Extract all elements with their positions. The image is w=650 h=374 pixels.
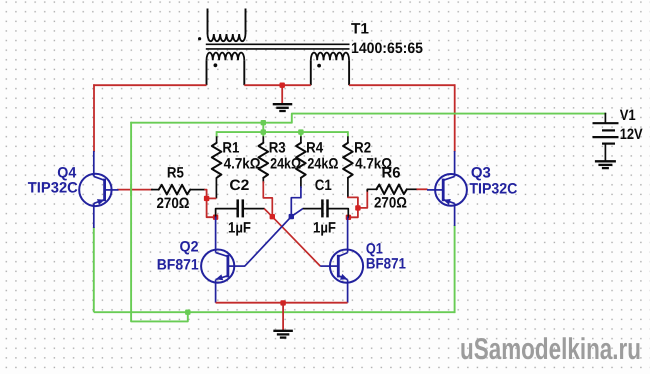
wire red cross to Q1 base bbox=[272, 217, 320, 266]
label R2 bbox=[354, 139, 371, 156]
label Q1 bbox=[366, 240, 383, 257]
label R6 value bbox=[374, 195, 407, 212]
wire red ground stub bbox=[282, 303, 284, 330]
wire green bottom rail bbox=[94, 311, 455, 313]
wire blue Q3 collector bbox=[454, 151, 456, 176]
junction cross node blue bbox=[289, 214, 294, 219]
transformer T1 secondary winding 2 bbox=[311, 53, 349, 61]
label Q3 bbox=[471, 165, 491, 182]
svg-text:uSamodelkina.ru: uSamodelkina.ru bbox=[460, 333, 641, 366]
wire red Q4 base to R5 bbox=[117, 189, 153, 191]
svg-text:T1: T1 bbox=[351, 21, 369, 38]
svg-text:R4: R4 bbox=[306, 139, 324, 156]
lead R6 right bbox=[407, 188, 418, 190]
wire green crossing overlay bbox=[130, 184, 132, 196]
transformer T1 secondary winding 1 bbox=[207, 53, 245, 61]
svg-text:BF871: BF871 bbox=[366, 256, 406, 273]
wire red top middle bbox=[244, 84, 310, 86]
junction top center tap bbox=[280, 83, 285, 88]
svg-text:R6: R6 bbox=[382, 165, 401, 182]
label R5 bbox=[167, 165, 184, 182]
wire red top left horizontal bbox=[93, 84, 206, 86]
wire blue Q3 base stub bbox=[427, 189, 435, 191]
wire red right vertical bbox=[454, 84, 456, 152]
capacitor C2 plates bbox=[238, 199, 243, 217]
transformer T1 primary lead left bbox=[207, 9, 209, 35]
label Q1 value bbox=[366, 256, 406, 273]
lead R4 bottom bbox=[300, 178, 302, 188]
label Q2 bbox=[180, 239, 199, 256]
transformer T1 secondary 1 phase dot bbox=[214, 63, 218, 67]
wire green top left bbox=[131, 114, 605, 123]
capacitor C1 plates bbox=[322, 199, 327, 217]
svg-text:C2: C2 bbox=[229, 177, 249, 194]
label R5 value bbox=[157, 195, 190, 212]
watermark uSamodelkina.ru bbox=[460, 333, 641, 366]
label C2 bbox=[229, 177, 249, 194]
label R4 bbox=[306, 139, 324, 156]
junction green bottom rail bbox=[185, 310, 190, 315]
lead R2 bottom bbox=[347, 178, 349, 198]
label R4 value bbox=[307, 156, 338, 173]
svg-text:R5: R5 bbox=[167, 165, 184, 182]
lead R4 top bbox=[300, 131, 302, 143]
wire red top right horizontal bbox=[349, 84, 455, 86]
junction green bus R3 bbox=[261, 129, 266, 134]
lead R5 left bbox=[151, 189, 159, 191]
label 1400:65:65 bbox=[351, 40, 423, 57]
wire blue Q2 collector bbox=[215, 217, 217, 251]
resistor R5 bbox=[159, 185, 191, 195]
transformer T1 secondary 2 lead left bbox=[310, 60, 312, 85]
resistor R3 bbox=[259, 143, 269, 178]
transistor Q2 bbox=[201, 249, 234, 283]
svg-text:V1: V1 bbox=[620, 107, 636, 124]
wire blue Q2 base stub bbox=[234, 265, 245, 267]
lead R3 top bbox=[262, 131, 264, 143]
wire blue Q1 collector bbox=[347, 217, 349, 251]
svg-text:C1: C1 bbox=[315, 177, 332, 194]
transformer T1 secondary 2 phase dot bbox=[317, 64, 321, 68]
svg-text:270Ω: 270Ω bbox=[157, 195, 190, 212]
wire red R3 to node bbox=[263, 182, 272, 217]
junction bottom ground node bbox=[280, 300, 285, 305]
lead R1 top bbox=[216, 131, 218, 143]
svg-text:1µF: 1µF bbox=[228, 219, 251, 236]
label R3 value bbox=[270, 156, 301, 173]
svg-text:24kΩ: 24kΩ bbox=[307, 156, 338, 173]
label Q2 value bbox=[157, 256, 199, 273]
transformer T1 primary lead right bbox=[245, 9, 247, 35]
resistor R4 bbox=[296, 143, 306, 178]
svg-text:R3: R3 bbox=[269, 139, 286, 156]
label Q4 value bbox=[28, 180, 78, 197]
wire green Q4 emitter vertical bbox=[93, 227, 95, 312]
wire blue Q4 emitter bbox=[93, 203, 95, 228]
ground (battery) bbox=[595, 161, 616, 168]
wire blue Q1 emitter bbox=[347, 283, 349, 303]
label Q3 value bbox=[469, 180, 517, 197]
svg-text:BF871: BF871 bbox=[157, 256, 199, 273]
wire blue C1 to node bbox=[291, 209, 303, 217]
svg-text:R1: R1 bbox=[222, 139, 239, 156]
label V1 value bbox=[620, 126, 643, 143]
wire red left vertical bbox=[93, 84, 95, 152]
svg-text:270Ω: 270Ω bbox=[374, 195, 407, 212]
wire green Q3 emitter vertical bbox=[454, 225, 456, 313]
resistor R1 bbox=[212, 143, 222, 178]
junction cross node red bbox=[270, 214, 275, 219]
ground (transformer center tap) bbox=[273, 104, 293, 111]
svg-text:R2: R2 bbox=[354, 139, 371, 156]
wire battery stub bbox=[604, 113, 606, 124]
wire red R2 staircase to R6 bbox=[348, 190, 367, 217]
lead R2 top bbox=[347, 131, 349, 143]
wire blue R4 to node bbox=[291, 187, 301, 217]
battery V1 bbox=[593, 123, 619, 143]
svg-text:Q2: Q2 bbox=[180, 239, 199, 256]
wire green left long vertical bbox=[130, 122, 132, 322]
lead C2 right bbox=[244, 208, 265, 210]
wire green resistor bus bbox=[217, 131, 348, 133]
junction green top wire bbox=[261, 120, 266, 125]
lead C1 right bbox=[329, 209, 349, 218]
transformer T1 core bbox=[206, 44, 350, 49]
wire red R6 to Q3 base bbox=[417, 188, 428, 190]
label V1 bbox=[620, 107, 636, 124]
lead R1 bottom bbox=[215, 178, 217, 199]
label R1 bbox=[222, 139, 239, 156]
svg-text:4.7kΩ: 4.7kΩ bbox=[224, 156, 261, 173]
wire blue Q4 collector bbox=[93, 151, 95, 176]
junction green bus R4 bbox=[298, 129, 303, 134]
svg-text:Q3: Q3 bbox=[471, 165, 491, 182]
label R1 value bbox=[224, 156, 261, 173]
transformer T1 primary phase dot bbox=[198, 37, 201, 40]
lead R6 left bbox=[367, 189, 377, 191]
svg-text:1400:65:65: 1400:65:65 bbox=[351, 40, 423, 57]
wire red center-tap stub bbox=[281, 85, 283, 103]
wire blue Q3 emitter bbox=[454, 203, 456, 226]
transistor Q3 bbox=[435, 174, 467, 207]
svg-text:1µF: 1µF bbox=[313, 219, 336, 236]
transformer T1 primary winding bbox=[208, 34, 246, 41]
resistor R2 bbox=[343, 143, 353, 178]
junction R5/R1 node bbox=[204, 196, 209, 201]
wire blue Q1 base stub bbox=[320, 265, 330, 267]
wire green stub R3 top bbox=[262, 123, 264, 132]
transformer T1 secondary 2 lead right bbox=[348, 60, 350, 85]
lead C2 left bbox=[216, 209, 237, 218]
junction C1/Q1 collector node bbox=[346, 215, 351, 220]
lead R5 right bbox=[190, 189, 205, 191]
label R3 bbox=[269, 139, 286, 156]
svg-text:TIP32C: TIP32C bbox=[28, 180, 78, 197]
label Q4 bbox=[57, 164, 77, 181]
svg-text:12V: 12V bbox=[620, 126, 643, 143]
lead battery bottom bbox=[604, 144, 606, 161]
label T1 bbox=[351, 21, 369, 38]
label C2 value bbox=[228, 219, 251, 236]
label R2 value bbox=[355, 156, 392, 173]
resistor R6 bbox=[376, 185, 407, 195]
transistor Q1 bbox=[330, 249, 363, 283]
wire red bottom rail bbox=[216, 302, 348, 304]
label C1 bbox=[315, 177, 332, 194]
transistor Q4 bbox=[79, 173, 111, 206]
wire red C2 to node bbox=[264, 209, 272, 217]
ground (bottom) bbox=[273, 331, 293, 338]
lead R3 bottom bbox=[262, 178, 264, 183]
transformer T1 secondary 1 lead left bbox=[206, 60, 208, 85]
lead C1 left bbox=[303, 208, 322, 210]
junction C2/Q2 collector node bbox=[213, 215, 218, 220]
transformer T1 secondary 1 lead right bbox=[243, 60, 245, 85]
wire blue Q4 base stub bbox=[112, 189, 119, 191]
wire blue cross to Q2 base bbox=[245, 217, 291, 267]
junction R6 tap node bbox=[355, 205, 360, 210]
svg-text:TIP32C: TIP32C bbox=[469, 180, 517, 197]
wire red R5 node staircase bbox=[205, 190, 216, 218]
label C1 value bbox=[313, 219, 336, 236]
wire green bottom jog bbox=[131, 312, 188, 321]
label R6 bbox=[382, 165, 401, 182]
wire blue Q2 emitter bbox=[215, 283, 217, 303]
